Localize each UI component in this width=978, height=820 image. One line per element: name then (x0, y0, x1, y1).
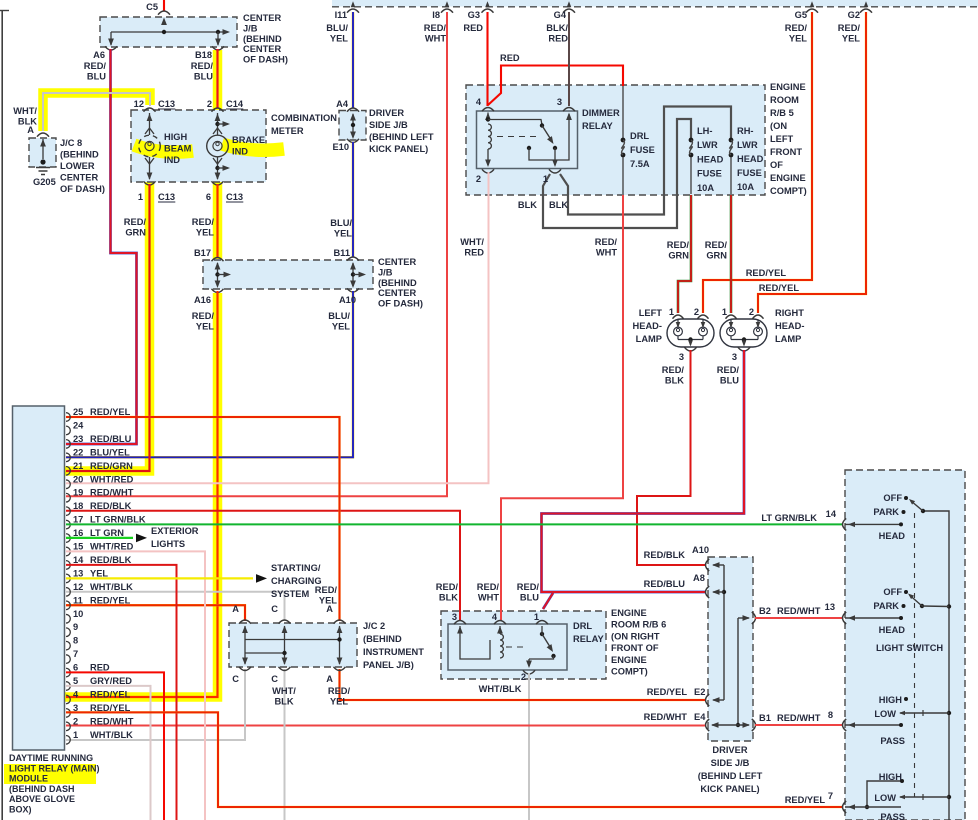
svg-text:OFF: OFF (883, 587, 902, 597)
svg-text:E10: E10 (332, 142, 349, 152)
LH-LWR head fuse 10A (689, 138, 694, 143)
wire LT GRN module pin16 to exterior lights arrow (66, 537, 133, 539)
light switch section3 dimmer (904, 697, 908, 701)
svg-text:DRIVER: DRIVER (712, 745, 747, 755)
svg-text:(BEHIND: (BEHIND (363, 634, 402, 644)
svg-text:FUSE: FUSE (697, 169, 722, 179)
svg-text:RED/: RED/ (662, 365, 685, 375)
wire RED/BLU right headlamp pin3 to A8 and DRL relay pin1 (542, 350, 745, 592)
top connector G3 (485, 1, 490, 7)
svg-text:G205: G205 (33, 177, 56, 187)
svg-text:B1: B1 (759, 713, 771, 723)
svg-text:RED/YEL: RED/YEL (90, 689, 131, 699)
svg-text:OF DASH): OF DASH) (243, 55, 288, 65)
highlight swash HIGH BEAM IND (134, 145, 193, 152)
DRL fuse 7.5A (622, 86, 624, 138)
wire B18 RED/BLU to meter pin2 (highlighted) (216, 49, 218, 108)
svg-text:LAMP: LAMP (775, 334, 801, 344)
svg-text:YEL: YEL (196, 227, 214, 237)
svg-text:C5: C5 (146, 2, 158, 12)
svg-text:(BEHIND DASH: (BEHIND DASH (9, 784, 75, 794)
wire YEL module pin13 to starting/charging arrow (66, 577, 253, 579)
svg-text:C13: C13 (158, 192, 175, 202)
svg-text:LOW: LOW (874, 793, 896, 803)
svg-text:J/B: J/B (243, 23, 258, 33)
wire RED/YEL module pin25 to J/C2 A (66, 417, 340, 621)
svg-text:ENGINE: ENGINE (770, 82, 806, 92)
svg-text:RH-: RH- (737, 126, 754, 136)
svg-text:14: 14 (73, 555, 84, 565)
svg-text:SYSTEM: SYSTEM (271, 589, 309, 599)
top connector G5 (810, 1, 815, 7)
svg-text:RED/YEL: RED/YEL (90, 407, 131, 417)
svg-text:RED/: RED/ (785, 23, 808, 33)
svg-text:C13: C13 (158, 99, 175, 109)
connector A16 (212, 289, 224, 293)
svg-text:18: 18 (73, 501, 83, 511)
svg-text:I11: I11 (335, 10, 347, 20)
highlight wire RED/BLU B18 to meter pin2 (213, 50, 223, 110)
svg-text:G2: G2 (848, 10, 860, 20)
svg-text:INSTRUMENT: INSTRUMENT (363, 647, 424, 657)
svg-text:2: 2 (73, 716, 78, 726)
svg-text:A16: A16 (194, 295, 211, 305)
svg-text:20: 20 (73, 474, 83, 484)
svg-text:CENTER: CENTER (378, 288, 417, 298)
driver jb internal A10-A8-E2 (713, 564, 724, 566)
svg-text:GRY/RED: GRY/RED (90, 676, 132, 686)
Center J/B 2 internal right (352, 263, 354, 286)
connector E4 (706, 719, 710, 731)
connector J/C8 A (37, 133, 49, 137)
svg-text:RED/YEL: RED/YEL (746, 268, 787, 278)
svg-text:OF: OF (770, 160, 783, 170)
wire RED/YEL J/C2 to E2 (340, 669, 706, 700)
svg-text:RED/BLK: RED/BLK (90, 555, 132, 565)
svg-text:10A: 10A (737, 182, 754, 192)
svg-text:LOWER: LOWER (60, 161, 95, 171)
top connector G4 (567, 1, 572, 7)
light switch section1 head (904, 496, 908, 500)
wire WHT/RED dimmer pin2 to module pin20 (66, 172, 489, 483)
wire C5 RED stub (163, 0, 165, 11)
connector meter pin1 C13 (144, 181, 156, 185)
wire G3 RED to dimmer relay pin4 (486, 12, 488, 106)
connector E2 (706, 694, 710, 706)
svg-text:7: 7 (828, 791, 833, 801)
svg-text:YEL: YEL (330, 33, 348, 43)
ground wire WHT/BLK to J/C8 (43, 93, 150, 131)
svg-text:25: 25 (73, 407, 83, 417)
svg-text:RELAY: RELAY (573, 634, 604, 644)
svg-text:COMBINATION: COMBINATION (271, 113, 337, 123)
svg-text:BLU: BLU (720, 375, 739, 385)
Center J/B 2 box (203, 260, 373, 289)
wire G4 BLK/RED to dimmer relay pin3 (568, 12, 570, 106)
svg-text:A10: A10 (692, 545, 709, 555)
connector A10 center jb (347, 288, 359, 292)
svg-text:HEAD: HEAD (737, 154, 764, 164)
wire RED/WHT module pin2 to E4 (66, 725, 705, 727)
svg-text:BLU: BLU (520, 592, 539, 602)
svg-text:BOX): BOX) (9, 805, 32, 815)
svg-text:RED/: RED/ (192, 217, 215, 227)
svg-text:2: 2 (521, 672, 526, 682)
svg-text:HEAD: HEAD (697, 154, 724, 164)
svg-text:C: C (271, 604, 278, 614)
svg-text:YEL: YEL (842, 33, 860, 43)
svg-text:LEFT: LEFT (770, 134, 794, 144)
svg-text:WHT: WHT (425, 33, 446, 43)
svg-text:BLU/: BLU/ (328, 311, 350, 321)
DRL relay inner box (448, 624, 567, 670)
top junction block band (332, 0, 978, 7)
highlight module label (4, 764, 96, 784)
connector meter pin6 C13 (212, 181, 224, 185)
svg-text:RED/: RED/ (315, 585, 338, 595)
svg-text:HIGH: HIGH (879, 695, 903, 705)
wire RED/BLK left headlamp pin3 to A10 (637, 350, 705, 565)
svg-text:12: 12 (73, 582, 83, 592)
svg-text:LT GRN/BLK: LT GRN/BLK (761, 513, 817, 523)
svg-text:FRONT: FRONT (770, 147, 802, 157)
svg-text:RED/BLU: RED/BLU (90, 434, 132, 444)
svg-text:RED/: RED/ (191, 61, 214, 71)
light switch box (845, 470, 965, 820)
svg-text:J/C 2: J/C 2 (363, 621, 385, 631)
connector J/C2 bottom A (334, 667, 346, 671)
svg-text:ROOM R/B 6: ROOM R/B 6 (611, 620, 666, 630)
svg-text:BLK: BLK (665, 375, 684, 385)
svg-text:R/B 5: R/B 5 (770, 108, 794, 118)
svg-text:BLK: BLK (274, 696, 293, 706)
svg-text:C: C (271, 674, 278, 684)
svg-text:2: 2 (207, 99, 212, 109)
wire BLK dimmer pin1 left leg (543, 119, 691, 228)
wire RED/GRN meter pin1 to module pin21 (highlighted) (66, 184, 150, 471)
connector A8 (706, 586, 710, 598)
svg-text:RED/WHT: RED/WHT (90, 488, 134, 498)
highlight wire RED/YEL A16 to module pin4 (64, 293, 218, 697)
svg-text:RED/YEL: RED/YEL (90, 703, 131, 713)
svg-text:ENGINE: ENGINE (770, 173, 806, 183)
svg-text:A: A (27, 125, 34, 135)
svg-text:LEFT: LEFT (639, 308, 663, 318)
svg-text:LIGHT RELAY (MAIN): LIGHT RELAY (MAIN) (9, 763, 100, 773)
wire BLU/YEL A10 to module pin22 (66, 291, 353, 457)
svg-text:6: 6 (73, 663, 78, 673)
svg-text:RED/YEL: RED/YEL (759, 283, 800, 293)
svg-text:RED/BLK: RED/BLK (644, 550, 686, 560)
wire RED/YEL module pin11 to J/C2 A (66, 605, 245, 621)
svg-text:PASS: PASS (880, 812, 905, 820)
wire RED/GRN RH fuse to right headlamp pin1 (730, 195, 733, 313)
svg-text:HIGH: HIGH (164, 132, 188, 142)
svg-text:BLK/: BLK/ (546, 23, 568, 33)
svg-text:HEAD-: HEAD- (633, 321, 662, 331)
svg-text:KICK PANEL): KICK PANEL) (700, 784, 759, 794)
driver jb internal B2-B1-E4 (738, 617, 749, 619)
wire G2 RED/YEL to right headlamp pin2 (758, 12, 866, 313)
svg-text:COMPT): COMPT) (611, 667, 648, 677)
svg-text:22: 22 (73, 447, 83, 457)
connector A10 driver jb (706, 559, 710, 571)
svg-text:BLU/: BLU/ (330, 218, 352, 228)
wire BLU/YEL E10 to B11 (352, 142, 355, 257)
svg-text:(BEHIND: (BEHIND (378, 278, 417, 288)
svg-text:HIGH: HIGH (879, 772, 903, 782)
J/C 2 box (229, 623, 357, 667)
wire I8 RED/WHT to module pin19 (66, 12, 447, 496)
svg-text:LOW: LOW (874, 709, 896, 719)
engine room R/B 5 box (466, 85, 765, 195)
svg-text:EXTERIOR: EXTERIOR (151, 526, 199, 536)
svg-text:A: A (326, 674, 333, 684)
dimmer relay inner box (477, 111, 578, 169)
top connector I11 (351, 1, 356, 7)
connector B18 (212, 46, 224, 50)
svg-text:24: 24 (73, 420, 84, 430)
svg-text:1: 1 (73, 730, 78, 740)
wire RED/YEL module pin3 to light switch 7 (66, 712, 842, 807)
svg-text:FRONT OF: FRONT OF (611, 643, 659, 653)
svg-text:BLK: BLK (518, 200, 537, 210)
svg-text:(BEHIND LEFT: (BEHIND LEFT (369, 132, 434, 142)
connector dimmer pin4 (482, 108, 494, 112)
svg-text:LWR: LWR (737, 140, 758, 150)
svg-text:1: 1 (722, 307, 727, 317)
highlight wire RED/YEL meter pin6 to B17 (213, 182, 223, 259)
svg-text:19: 19 (73, 488, 83, 498)
svg-text:RED/: RED/ (595, 237, 618, 247)
svg-text:RED/: RED/ (84, 61, 107, 71)
svg-text:RED: RED (90, 663, 110, 673)
connector B2 (752, 612, 756, 624)
svg-text:3: 3 (679, 352, 684, 362)
svg-text:B18: B18 (195, 50, 212, 60)
svg-text:RED/: RED/ (424, 23, 447, 33)
svg-text:WHT: WHT (596, 247, 617, 257)
svg-text:RED/YEL: RED/YEL (90, 595, 131, 605)
svg-text:G4: G4 (554, 10, 567, 20)
connector light switch 7 (843, 801, 847, 813)
wire BLK dimmer pin1 right leg (560, 107, 731, 215)
svg-text:GRN: GRN (668, 250, 689, 260)
svg-text:21: 21 (73, 461, 83, 471)
svg-text:RELAY: RELAY (582, 121, 613, 131)
svg-text:BLU: BLU (87, 71, 106, 81)
svg-text:LH-: LH- (697, 126, 713, 136)
svg-text:RED/: RED/ (124, 217, 147, 227)
svg-text:RED/BLU: RED/BLU (644, 579, 686, 589)
driver side J/B upper box (339, 111, 366, 141)
svg-text:A4: A4 (336, 99, 349, 109)
connector J/C2 top A left (239, 620, 251, 624)
wire RED/WHT B2 to light switch 13 (755, 617, 842, 619)
light switch section4 dimmer pass (900, 796, 949, 798)
svg-text:PANEL J/B): PANEL J/B) (363, 660, 414, 670)
connector B17 (212, 258, 224, 262)
svg-text:10: 10 (73, 609, 83, 619)
svg-text:2: 2 (749, 307, 754, 317)
svg-text:PASS: PASS (880, 736, 905, 746)
connector A6 (105, 46, 117, 50)
svg-text:WHT/RED: WHT/RED (90, 542, 134, 552)
svg-text:16: 16 (73, 528, 83, 538)
svg-text:A6: A6 (93, 50, 105, 60)
svg-text:WHT/: WHT/ (272, 686, 296, 696)
svg-text:HEAD: HEAD (879, 531, 906, 541)
wire RED module pin6 down (66, 672, 164, 820)
svg-text:FUSE: FUSE (630, 145, 655, 155)
wire RED/YEL A16 to module pin4 (highlighted) (66, 291, 218, 697)
wire WHT/BLK module pin12 to J/C2 C (66, 592, 285, 621)
svg-text:YEL: YEL (196, 321, 214, 331)
svg-text:(BEHIND: (BEHIND (243, 34, 282, 44)
engine room R/B 6 box (441, 611, 606, 679)
Center J/B top internal wire (111, 31, 225, 33)
wire G5 RED/YEL to left headlamp pin2 (703, 12, 812, 313)
svg-text:CENTER: CENTER (243, 13, 282, 23)
svg-text:RED/: RED/ (477, 582, 500, 592)
Center J/B box top (100, 17, 237, 47)
svg-text:3: 3 (732, 352, 737, 362)
svg-text:A: A (232, 604, 239, 614)
svg-text:DIMMER: DIMMER (582, 108, 620, 118)
svg-text:7.5A: 7.5A (630, 159, 650, 169)
wire LT GRN/BLK module pin17 to light switch 14 (66, 523, 842, 525)
svg-text:CENTER: CENTER (378, 257, 417, 267)
svg-text:B2: B2 (759, 606, 771, 616)
svg-text:LIGHT SWITCH: LIGHT SWITCH (876, 643, 943, 653)
svg-text:BEAM: BEAM (164, 144, 192, 154)
svg-text:WHT/RED: WHT/RED (90, 474, 134, 484)
wire GRY/RED module pin5 down (66, 686, 151, 820)
svg-text:RED/: RED/ (717, 365, 740, 375)
wire WHT/BLK module pin1 to J/C2 C (66, 669, 245, 740)
wire RED/GRN LH fuse to left headlamp pin1 (678, 195, 691, 313)
svg-text:LAMP: LAMP (636, 334, 662, 344)
svg-text:RED/WHT: RED/WHT (644, 712, 688, 722)
svg-text:RED/: RED/ (328, 686, 351, 696)
svg-text:DRIVER: DRIVER (369, 108, 404, 118)
svg-text:B11: B11 (333, 248, 350, 258)
svg-text:RED/YEL: RED/YEL (785, 795, 826, 805)
svg-text:KICK PANEL): KICK PANEL) (369, 144, 428, 154)
svg-text:8: 8 (828, 710, 833, 720)
ground G205 (40, 159, 45, 164)
svg-text:J/B: J/B (378, 267, 393, 277)
connector meter pin2 C14 (212, 108, 224, 112)
svg-text:C: C (232, 674, 239, 684)
svg-text:METER: METER (271, 126, 304, 136)
svg-text:WHT/: WHT/ (13, 106, 37, 116)
svg-text:DRL: DRL (630, 131, 649, 141)
J/C8 internal (42, 139, 44, 159)
svg-text:WHT/BLK: WHT/BLK (90, 730, 133, 740)
wire RED branch to DRL fuse (488, 66, 623, 106)
svg-text:3: 3 (73, 703, 78, 713)
svg-text:A: A (326, 604, 333, 614)
svg-text:MODULE: MODULE (9, 774, 48, 784)
connector B11 (347, 257, 359, 261)
svg-text:BRAKE: BRAKE (232, 135, 265, 145)
svg-text:WHT: WHT (478, 592, 499, 602)
wire WHT/RED module pin15 down (66, 551, 205, 820)
light switch section2 head (904, 590, 908, 594)
svg-text:GRN: GRN (125, 227, 146, 237)
svg-text:9: 9 (73, 622, 78, 632)
high beam ind lamp (149, 113, 151, 135)
svg-text:RED/: RED/ (838, 23, 861, 33)
svg-text:SIDE J/B: SIDE J/B (711, 758, 750, 768)
svg-text:OF DASH): OF DASH) (60, 184, 105, 194)
svg-text:14: 14 (826, 509, 837, 519)
connector E10 (347, 139, 359, 143)
svg-text:7: 7 (73, 649, 78, 659)
svg-text:(ON: (ON (770, 121, 787, 131)
combination meter box (131, 110, 266, 182)
svg-text:1: 1 (543, 174, 548, 184)
svg-text:BLU: BLU (194, 71, 213, 81)
svg-text:LT GRN: LT GRN (90, 528, 124, 538)
svg-text:WHT/BLK: WHT/BLK (90, 582, 133, 592)
svg-text:G5: G5 (795, 10, 807, 20)
svg-text:CENTER: CENTER (243, 44, 282, 54)
wire RED/BLK module pin14 down (66, 565, 177, 820)
svg-text:RED/BLK: RED/BLK (90, 501, 132, 511)
svg-text:RED/: RED/ (436, 582, 459, 592)
svg-text:IND: IND (164, 155, 180, 165)
svg-text:STARTING/: STARTING/ (271, 563, 321, 573)
svg-text:ENGINE: ENGINE (611, 608, 647, 618)
svg-text:A8: A8 (693, 573, 705, 583)
svg-text:YEL: YEL (330, 696, 348, 706)
svg-text:RED: RED (548, 33, 568, 43)
svg-text:BLK: BLK (549, 200, 568, 210)
svg-text:RED/WHT: RED/WHT (777, 606, 821, 616)
driver side J/B upper internal (352, 114, 354, 137)
svg-text:RED/WHT: RED/WHT (777, 713, 821, 723)
connector C5 (158, 11, 170, 15)
wire WHT/BLK DRL relay pin2 down (528, 673, 530, 820)
driver side J/B lower box (708, 557, 753, 741)
svg-text:11: 11 (73, 595, 83, 605)
svg-text:RIGHT: RIGHT (775, 308, 804, 318)
connector J/C2 bottom C mid (279, 667, 291, 671)
svg-text:10A: 10A (697, 183, 714, 193)
top connector G2 (864, 1, 869, 7)
module pin connector arcs (66, 736, 70, 745)
svg-text:LT GRN/BLK: LT GRN/BLK (90, 515, 146, 525)
svg-text:E4: E4 (694, 712, 706, 722)
connector DRL pin3 (454, 621, 466, 625)
connector DRL pin1 (536, 621, 548, 625)
highlight swash BRAKE IND (222, 144, 284, 150)
svg-text:5: 5 (73, 676, 78, 686)
svg-text:RED/YEL: RED/YEL (647, 687, 688, 697)
svg-text:ABOVE GLOVE: ABOVE GLOVE (9, 794, 75, 804)
svg-text:OF DASH): OF DASH) (378, 299, 423, 309)
wire RED/BLK module pin18 to DRL relay pin3 (66, 511, 460, 621)
svg-text:1: 1 (534, 612, 539, 622)
wire I11 BLU/YEL to A4 (352, 12, 355, 108)
svg-text:2: 2 (476, 174, 481, 184)
svg-text:2: 2 (694, 307, 699, 317)
svg-text:YEL: YEL (334, 228, 352, 238)
page left border (1, 10, 3, 820)
wire A6 RED/BLU to module pin23 (66, 49, 137, 444)
